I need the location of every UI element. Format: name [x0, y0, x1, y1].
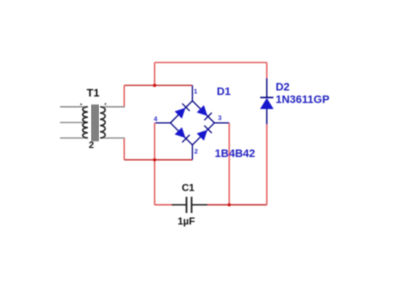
capacitor C1 leads — [172, 204, 208, 206]
svg-text:1: 1 — [194, 88, 198, 95]
transformer polarity dot right — [105, 103, 107, 105]
svg-text:D2: D2 — [276, 82, 290, 94]
diode bottom-right of bridge (points to pin 3) — [197, 126, 212, 141]
svg-text:4: 4 — [154, 116, 158, 123]
node C junction dot — [228, 203, 231, 206]
wire node B to bridge pin 2 — [155, 159, 193, 161]
wire D2 top red segment — [266, 63, 268, 79]
bridge pin 2 lead — [191, 145, 193, 160]
wire left vertical top corner down to node A — [154, 63, 156, 86]
svg-text:1µF: 1µF — [178, 216, 195, 227]
transformer polarity dot left — [80, 104, 82, 106]
diode top-right of bridge (points to pin 3) — [197, 106, 212, 121]
wire node A to transformer top lead — [124, 84, 154, 86]
svg-text:C1: C1 — [182, 183, 195, 194]
capacitor C1 plates — [187, 197, 192, 213]
transformer T1 left leads — [60, 107, 88, 138]
bridge rectifier D1 diamond — [170, 101, 214, 145]
bridge pin 3 lead — [214, 122, 229, 124]
svg-text:D1: D1 — [217, 86, 231, 98]
wire top from node A to D2 — [155, 62, 267, 64]
svg-text:1B4B42: 1B4B42 — [215, 148, 255, 160]
wire bottom rail C1 to node C to D2 bottom — [208, 204, 267, 206]
wire node A to bridge pin 1 — [155, 84, 193, 86]
diode top-left of bridge (points to pin 1) — [175, 104, 190, 119]
diode D2 cathode bar — [260, 97, 273, 99]
diode D2 triangle — [260, 98, 273, 108]
bridge pin 1 lead — [191, 85, 193, 100]
svg-text:3: 3 — [218, 115, 222, 122]
transformer T1 secondary winding — [100, 107, 105, 138]
wire transformer bottom lead to node B — [123, 138, 125, 160]
wire bottom rail left segment to C1 — [155, 204, 172, 206]
wire node B up to bridge pin 4 — [154, 123, 156, 160]
bridge pin 4 lead — [155, 122, 170, 124]
svg-text:1N3611GP: 1N3611GP — [276, 94, 330, 106]
diode bottom-left of bridge (points to pin 2) — [175, 128, 190, 143]
diode D2 leads — [266, 78, 268, 125]
wire bridge pin 3 down to node C — [228, 123, 230, 205]
svg-text:2: 2 — [194, 149, 198, 156]
wire D2 bottom red segment — [266, 125, 268, 205]
node B junction dot — [153, 158, 156, 161]
transformer T1 core lines — [92, 105, 98, 142]
transformer T1 primary winding — [83, 107, 88, 138]
transformer T1 right leads — [101, 107, 125, 138]
wire node B down to bottom rail — [154, 160, 156, 205]
svg-text:2: 2 — [89, 140, 94, 151]
node A junction dot — [153, 84, 156, 87]
svg-text:T1: T1 — [87, 88, 100, 100]
